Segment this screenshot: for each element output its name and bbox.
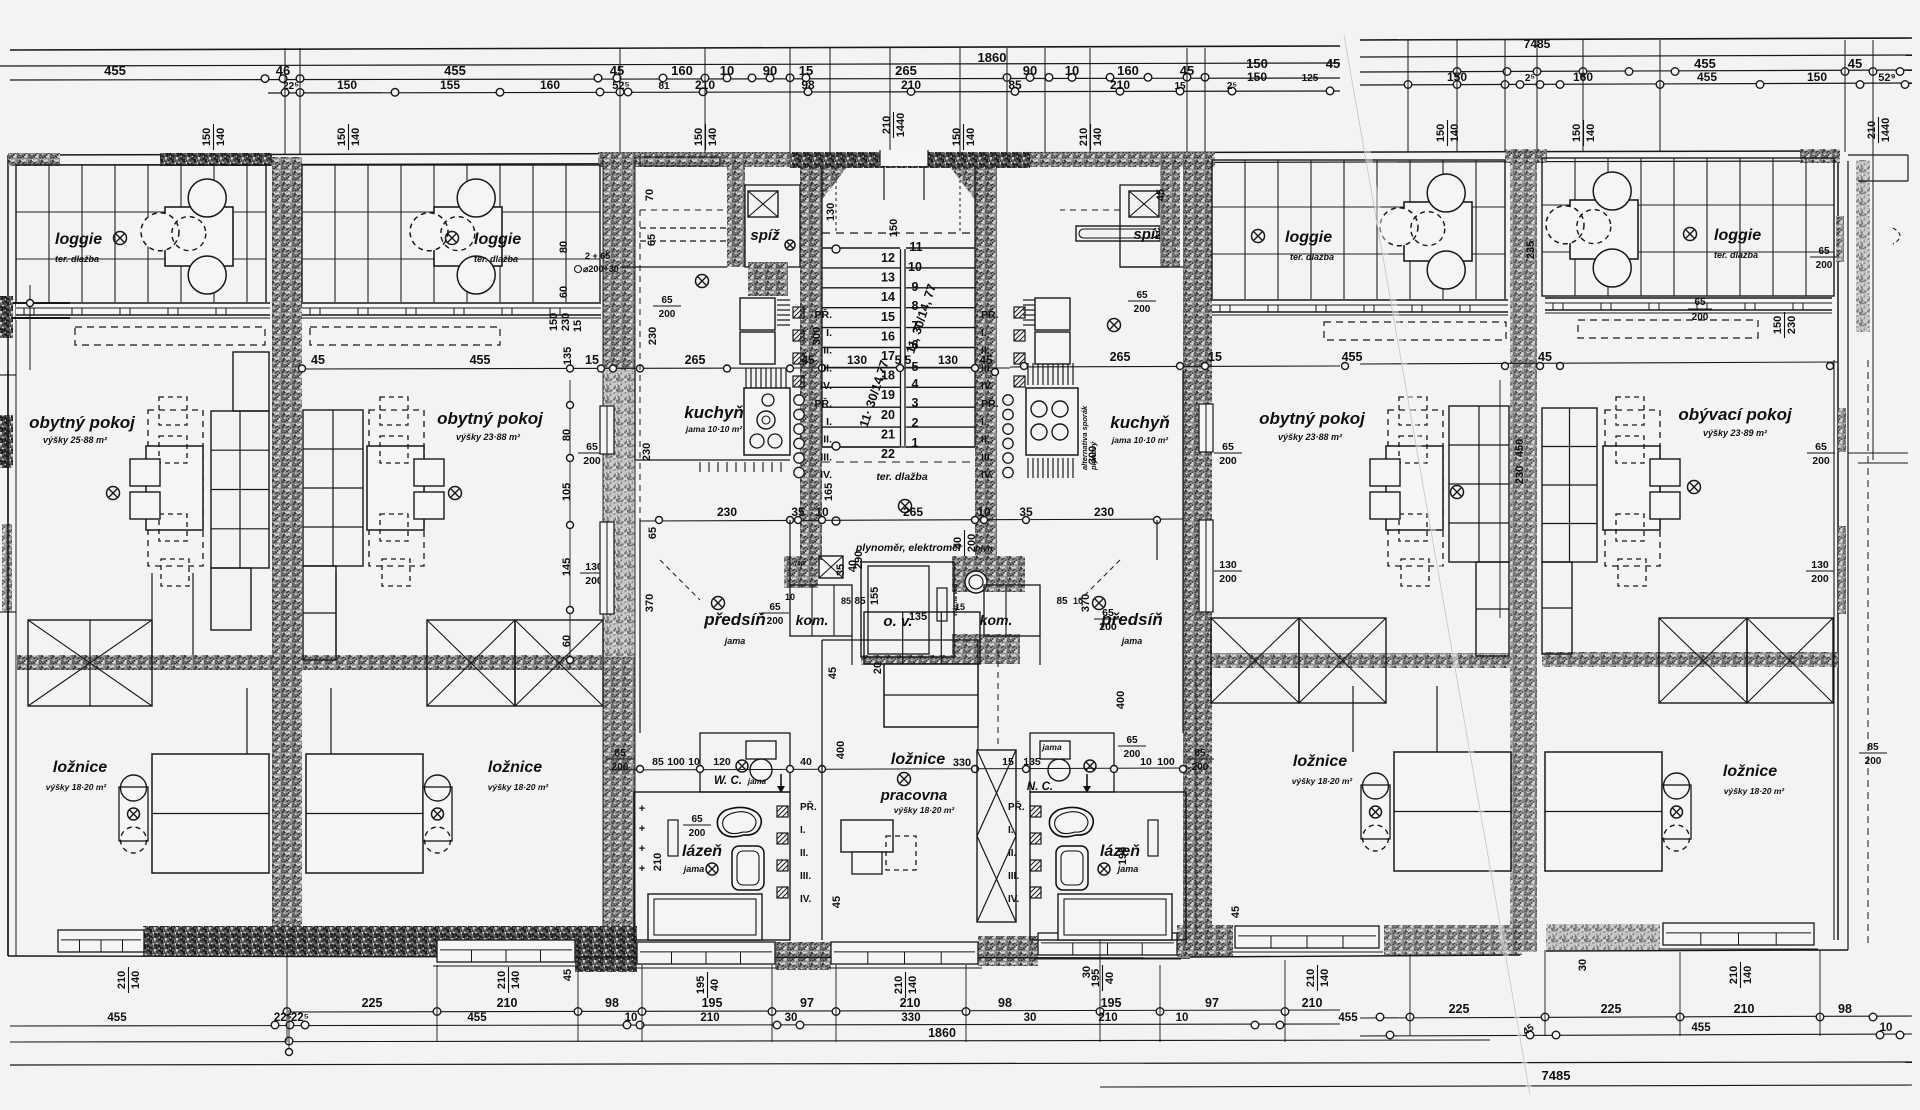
right wall window bar loggia level xyxy=(1836,216,1844,262)
apt1 room inner boundary xyxy=(15,370,17,655)
apt windows right wall dark strips xyxy=(1838,408,1846,452)
stair hall dashed line under treads xyxy=(822,461,975,463)
bottom dim line 3 xyxy=(10,1040,1490,1042)
bottom wall main dark band xyxy=(143,926,637,956)
stair top wall band xyxy=(790,152,1030,168)
apt2 bedside table xyxy=(423,787,452,841)
O.V. box outer xyxy=(861,562,954,657)
bottom dim line 1 right sheet xyxy=(1360,1016,1912,1018)
rotated labels right loggia col xyxy=(1514,439,1526,457)
stair rotated dim 300 left xyxy=(811,327,823,345)
center tall wardrobe X xyxy=(977,750,1016,922)
apt5 bedside table xyxy=(1662,785,1691,839)
far right wall streak xyxy=(1856,160,1870,332)
right wall dashed line xyxy=(1867,360,1869,945)
stair rotated dim 165 bottom-left xyxy=(823,483,835,501)
kom left dark blobs xyxy=(784,556,818,588)
window sill apt2 bedroom xyxy=(437,940,575,962)
right margin outer vertical xyxy=(1872,112,1874,460)
spiz left box xyxy=(745,185,800,267)
window sill apt4 bedroom xyxy=(1235,926,1379,948)
top second line right xyxy=(1360,55,1912,57)
left kitchen fridge boxes xyxy=(740,298,775,330)
top boundary line left sheet xyxy=(10,46,1340,50)
apt2 light symbol xyxy=(449,487,462,500)
party wall W3 xyxy=(1183,155,1212,955)
right edge rotated 150/230 xyxy=(1772,312,1798,338)
loggia 3 label xyxy=(1252,230,1265,243)
loggia 3 grid right of center xyxy=(1212,160,1505,300)
apt4 dining table set xyxy=(1388,410,1443,566)
bath left room outline xyxy=(634,792,790,940)
bath dimension row y769 xyxy=(610,768,1190,770)
wardrobe X apt2 xyxy=(427,620,515,706)
seam edge lines xyxy=(1344,35,1530,1095)
center cupboard strip xyxy=(864,612,980,664)
kitchen left wall column xyxy=(727,157,745,267)
ticks dim line2 right sheet xyxy=(1404,81,1412,89)
predsin right light xyxy=(1093,597,1106,610)
wardrobe X left corner xyxy=(28,620,152,706)
mid dim line right sheet xyxy=(1360,362,1838,364)
apt1 dining table set xyxy=(148,410,203,566)
right margin dashed arc xyxy=(1893,228,1900,244)
pracovna desk xyxy=(841,820,893,852)
apt2 dining table set xyxy=(369,410,424,566)
flue hatched squares left wall xyxy=(793,307,804,318)
WC left toilet xyxy=(746,741,776,759)
rotated 235 label right xyxy=(1525,241,1537,259)
apt4 cupboard xyxy=(1449,406,1509,562)
left kitchen light symbol xyxy=(696,275,709,288)
spiz right X shelf xyxy=(1129,191,1159,217)
left kitchen comb counter xyxy=(745,368,747,388)
wardrobe X apt4 xyxy=(1211,618,1299,703)
stair left wall xyxy=(800,168,822,560)
dim chain x570 xyxy=(569,380,571,668)
predsin partition lines xyxy=(639,520,641,733)
bottom dim line 2 left xyxy=(10,1024,1340,1026)
top dimension line 2 left sheet xyxy=(268,91,1340,93)
bottom wall segment right sheet xyxy=(1546,924,1660,950)
rotated 80 and 60 labels near x567 loggia xyxy=(558,241,570,253)
stair dimension line y367 xyxy=(790,367,1010,369)
kitchen interior walls left unit xyxy=(634,370,636,460)
stair treads xyxy=(822,247,900,249)
top dimension line 1 left sheet xyxy=(10,78,1340,80)
bedroom top boundaries xyxy=(16,572,152,574)
bedroom dividing wall right section b xyxy=(1542,652,1838,667)
center room dim labels xyxy=(827,667,839,679)
mid dim ticks xyxy=(299,365,306,372)
party wall W2 lower xyxy=(603,657,635,955)
window sill apt5 bedroom xyxy=(1663,923,1814,945)
wardrobe niche lines apt1 xyxy=(151,573,153,655)
bottom wall segment x1384 xyxy=(1384,925,1522,955)
rotated dims near kitchens xyxy=(644,189,656,201)
right kitchen light symbol xyxy=(1108,319,1121,332)
party wall W2 upper xyxy=(603,157,635,370)
top second line left xyxy=(0,63,1340,66)
center bed horizontal xyxy=(884,664,978,727)
bottom witness verticals xyxy=(286,940,288,1042)
stair right wall xyxy=(975,168,997,560)
right kitchen: stove with 4 burners xyxy=(1026,388,1078,455)
apt4 bed xyxy=(1394,752,1511,871)
loggia 2 label xyxy=(446,232,459,245)
boiler circle xyxy=(965,571,987,593)
building top wall outer line xyxy=(8,151,1838,155)
bath left big tub xyxy=(648,894,762,940)
living room inner walls around windows left apt1 xyxy=(59,370,61,410)
left living window lines xyxy=(0,374,16,376)
top wall dark segment left corner xyxy=(8,153,60,166)
bottom wall pier right of pracovna xyxy=(978,936,1038,966)
bedroom partition walls verticals xyxy=(246,688,248,754)
bottom dim line 2 right sheet xyxy=(1360,1034,1912,1036)
apt2 cupboard xyxy=(303,410,363,566)
stair landing dashed line xyxy=(822,232,975,234)
apt5 light symbol xyxy=(1688,481,1701,494)
right kitchen comb counters xyxy=(1027,363,1029,385)
top wall dark segment x160-272 xyxy=(160,153,272,166)
bath right big tub xyxy=(1058,894,1172,940)
apt5 bed xyxy=(1545,752,1662,871)
predsin left light xyxy=(712,597,725,610)
stair ticks xyxy=(832,245,840,253)
bottom wall baseline xyxy=(8,956,1190,958)
bath right small tub xyxy=(1056,846,1088,890)
window sill bath right xyxy=(1038,933,1177,955)
stair rotated dim 130 top xyxy=(825,203,837,221)
apt windows left wall dark strips xyxy=(0,415,13,467)
ticks dim line2 xyxy=(281,89,289,97)
predsin dashed door guides xyxy=(660,560,700,600)
utility dim line y520 xyxy=(640,519,1183,521)
apt1 bed xyxy=(152,754,269,873)
NC right light xyxy=(1084,760,1096,772)
top wall dark segment right divider xyxy=(1505,149,1547,163)
top wall dark far right xyxy=(1800,149,1840,163)
WC left arrow down xyxy=(780,774,782,788)
bottom rotated labels 195/40 xyxy=(695,972,721,998)
rotated 40/200 near meters xyxy=(952,530,978,556)
rotated label 210 1440 top right corner xyxy=(1866,117,1892,143)
rotated label 210 144 center xyxy=(881,112,907,138)
bedroom dividing wall left section xyxy=(16,655,602,670)
bottom rotated 30 labels xyxy=(1081,966,1093,978)
building right outer wall xyxy=(1837,151,1839,940)
bath right rotated labels xyxy=(1117,847,1129,865)
bath right door slot xyxy=(1148,820,1158,856)
spiz right capsule shelf xyxy=(1076,226,1160,241)
seam artifact between sheets xyxy=(1344,30,1534,1100)
center bedroom light xyxy=(898,773,911,786)
party wall W2 middle xyxy=(603,370,635,657)
stair vestibule side dashes xyxy=(835,168,837,233)
predsin right rotated 370 xyxy=(1080,594,1092,612)
kom right box xyxy=(984,585,1040,636)
stair right wall top flare xyxy=(952,167,975,169)
apt4 window slots in W3 xyxy=(1199,404,1213,452)
flue circles right wall xyxy=(1003,395,1013,405)
bath right washbasin peanut xyxy=(1049,807,1093,836)
loggia 2 grid xyxy=(302,165,600,305)
kitchen right unit interior xyxy=(1182,370,1184,460)
right kitchen fridge boxes xyxy=(1035,298,1070,330)
corridor dashed line right unit xyxy=(1195,660,1197,930)
party wall W2 edge lines xyxy=(602,157,604,955)
apt2 window slots in W2 xyxy=(600,406,614,454)
kitchen dashed guides left xyxy=(640,209,727,211)
loggia 1 grid xyxy=(16,165,266,305)
left kitchen bottom counter comb xyxy=(699,462,701,472)
chimney crossed box left xyxy=(819,556,843,578)
center bedroom room outline xyxy=(821,640,823,940)
apt1 light symbol xyxy=(107,487,120,500)
bottom long line 4 xyxy=(10,1062,1912,1065)
top dimension line 1 right sheet xyxy=(1360,70,1912,72)
bath left flue squares xyxy=(777,806,788,817)
window sill left corner xyxy=(58,930,144,952)
NC right arrow xyxy=(1086,774,1088,788)
utility rotated labels small xyxy=(835,564,847,576)
bottom dim1 ticks xyxy=(283,1008,291,1016)
left unit top interior lines xyxy=(620,266,727,268)
party wall W4 right sheet xyxy=(1510,152,1537,952)
stair bottom edge xyxy=(822,446,975,448)
left margin black mark 1 xyxy=(0,296,13,338)
top dimension line 2 right sheet xyxy=(1360,83,1912,85)
window sill pracovna xyxy=(831,942,978,964)
NC right toilet xyxy=(1048,759,1070,781)
planter dashed boxes xyxy=(75,327,265,345)
left kitchen stove xyxy=(744,388,790,455)
bottom line 5 right xyxy=(1100,1085,1912,1087)
apt4 bedside table xyxy=(1361,785,1390,839)
apt1 bedside table xyxy=(119,787,148,841)
building left outer wall xyxy=(7,155,9,956)
spiz left X shelf xyxy=(748,191,778,217)
WC left light xyxy=(736,760,748,772)
rotated window size labels top xyxy=(201,124,227,150)
WC left room xyxy=(700,733,790,792)
wardrobe X apt5 xyxy=(1659,618,1747,703)
apt5 right wall window strips xyxy=(1833,360,1835,940)
apt4 light symbol xyxy=(1451,486,1464,499)
apt2 closet partition line xyxy=(335,573,337,655)
bath left small tub xyxy=(732,846,764,890)
right margin step mid xyxy=(1848,452,1908,454)
NC right room xyxy=(1030,733,1114,792)
bottom dim line 1 left xyxy=(287,1010,1340,1012)
loggia 4 grid far right xyxy=(1542,158,1834,296)
spiz left dark blob xyxy=(748,262,788,296)
bottom rotated labels 210/140 xyxy=(116,967,142,993)
O.V. box inner xyxy=(868,566,929,654)
left outer wall lower lines xyxy=(7,370,9,956)
rotated 150/230/15 under left loggia xyxy=(548,313,560,331)
stair entrance gap xyxy=(880,150,928,166)
spiz right box xyxy=(1120,185,1168,267)
top boundary line right sheet xyxy=(1360,38,1912,40)
kitchen window left unit top xyxy=(640,157,720,166)
spiz left dashed shelf band xyxy=(640,227,727,229)
apt2 bed xyxy=(306,754,423,873)
stair hall light symbol xyxy=(899,500,912,513)
room boundary line right of W4 xyxy=(1499,380,1501,618)
bottom wall segment below stair-left xyxy=(575,940,637,972)
kom left box xyxy=(790,585,852,636)
bottom dim2 ticks xyxy=(271,1021,279,1029)
window sill bath left xyxy=(637,942,775,964)
left margin lines at parapet xyxy=(0,302,70,304)
building top wall inner line xyxy=(8,161,1838,165)
predsin left rotated 370 xyxy=(644,594,656,612)
bottom rotated 45 labels xyxy=(562,969,574,981)
O.V. door slot xyxy=(937,588,947,621)
witness verticals top xyxy=(284,48,286,155)
stair left wall top flare xyxy=(800,168,846,200)
bath right flue squares xyxy=(1030,806,1041,817)
parapet band loggia1-2 xyxy=(16,302,270,320)
bottom wall segment center-right pier xyxy=(775,942,831,970)
left margin black mark 2 xyxy=(0,418,12,468)
rotated 135 label near x567 xyxy=(562,347,574,365)
ticks dim line1 xyxy=(261,75,269,83)
kitchen dashed guides right xyxy=(1060,209,1120,211)
bedroom dividing wall right section a xyxy=(1212,653,1510,668)
O.V. rotated 155 xyxy=(869,587,881,605)
flue circles left wall xyxy=(794,395,804,405)
stair outline interior xyxy=(821,168,823,447)
loggia 4 label xyxy=(1684,228,1697,241)
bath left washbasin peanut xyxy=(717,807,761,836)
flue hatched squares right wall xyxy=(1014,307,1025,318)
apt5 cupboard xyxy=(1542,408,1597,562)
top wall dark segment kitchens-stair block xyxy=(598,152,838,167)
apt1 cupboard xyxy=(211,411,269,568)
mid dim line y368 across left sheet xyxy=(300,368,790,369)
right kitchen wall column xyxy=(1160,157,1180,267)
bottom wall segment x1177 xyxy=(1177,925,1233,957)
bath left door slot xyxy=(668,820,678,856)
stair center rail xyxy=(900,249,902,446)
stair entrance door marks xyxy=(883,166,885,200)
apt5 dining table set xyxy=(1605,410,1660,566)
ticks dim line1 right sheet xyxy=(1453,68,1461,76)
utility dim ticks xyxy=(656,517,663,524)
party wall W1 xyxy=(272,157,302,955)
bath left rotated 210 xyxy=(652,853,664,871)
right margin step upper xyxy=(1848,154,1908,156)
parapet band right loggias xyxy=(1212,299,1508,317)
bath right room outline xyxy=(1030,792,1186,940)
